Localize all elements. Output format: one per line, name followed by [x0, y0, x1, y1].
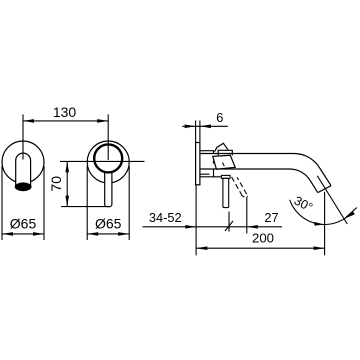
- dim 27 slash tick: [225, 221, 233, 231]
- svg-text:70: 70: [48, 176, 64, 192]
- centerline horizontal right circle / 70 top tick: [60, 160, 145, 162]
- dim 30 deg arrow at vertical: [314, 222, 325, 226]
- dim o65 right ext lines: [87, 166, 129, 240]
- dashed lever end cap: [242, 195, 248, 197]
- dim o65 left ext lines: [2, 166, 44, 240]
- handle lever open position (solid, tilted): [215, 143, 229, 151]
- handle skirt trapezoid: [213, 155, 235, 169]
- dim o65 right line: [87, 233, 129, 235]
- spout outlet dark ellipse: [15, 182, 32, 191]
- dim 200 line: [196, 247, 324, 249]
- centerline vertical right circle: [107, 114, 109, 160]
- wall plate side: [196, 143, 200, 185]
- dim 70 line: [66, 161, 68, 206]
- spout bottom line with bend: [200, 169, 318, 193]
- handle inner circle: [94, 144, 122, 172]
- dim 6 ext lines: [196, 121, 200, 143]
- svg-text:6: 6: [216, 110, 223, 125]
- dim 30 deg arc: [290, 200, 345, 225]
- dim o65 left line: [2, 233, 44, 235]
- spout tip end cap: [318, 186, 331, 193]
- svg-text:27: 27: [264, 210, 278, 225]
- dim 200 arrows: [196, 246, 324, 250]
- ext line wall below plate: [195, 185, 197, 255]
- escutcheon circle handle (right): [87, 141, 129, 183]
- ext line spout tip: [324, 192, 326, 256]
- handle lever front: [105, 168, 112, 207]
- dim 130 arrow right: [97, 119, 108, 123]
- svg-text:34-52: 34-52: [149, 210, 182, 225]
- centerline vertical left circle: [22, 114, 24, 159]
- dim 6 arrows: [185, 125, 211, 129]
- dashed marks inside trapezoid: [213, 161, 224, 166]
- dim 34-52 arrow: [185, 225, 196, 229]
- svg-text:130: 130: [53, 104, 77, 120]
- dim o65 left arrows: [2, 232, 44, 236]
- dim 27 arrow: [247, 225, 258, 229]
- dim 70 arrow down: [65, 196, 69, 207]
- lever rod cap: [221, 175, 230, 178]
- escutcheon circle spout (left): [2, 141, 44, 183]
- body cylinder bottom line: [200, 174, 222, 177]
- handle hub rect: [218, 150, 232, 155]
- body end tick bottom: [213, 169, 215, 177]
- dashed lever position line A: [232, 177, 242, 195]
- dim o65 right arrows: [87, 232, 129, 236]
- svg-text:200: 200: [252, 230, 274, 245]
- ext line dashed lever tip: [246, 197, 248, 234]
- svg-text:Ø65: Ø65: [10, 215, 37, 231]
- spout front (U tube): [16, 153, 31, 187]
- ext line lever rod: [228, 212, 230, 232]
- dim 70 arrow up: [65, 161, 69, 172]
- dashed lever position line B: [237, 177, 248, 196]
- dim 34-52 / 27 shared line: [143, 226, 283, 228]
- dim 130 line: [23, 120, 108, 122]
- dim 6 line: [182, 125, 228, 127]
- dim 30 deg arrow tail: [345, 208, 357, 219]
- dim 30 deg axis extension line: [317, 176, 347, 224]
- dim 130 arrow left: [23, 119, 34, 123]
- body cylinder top line: [200, 151, 214, 154]
- svg-text:Ø65: Ø65: [95, 215, 122, 231]
- spout top line with bend: [200, 154, 331, 186]
- lever rod down: [223, 178, 229, 207]
- dim 70 bottom tick: [61, 206, 110, 208]
- dim 30 deg arrow at axis: [345, 211, 355, 218]
